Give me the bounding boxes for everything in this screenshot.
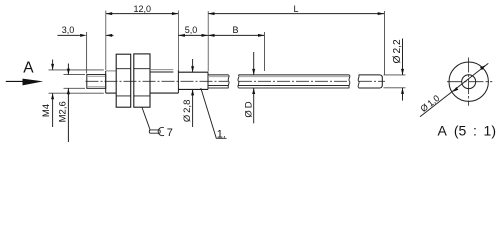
M2,6 threaded stub (87, 75, 106, 89)
shoulder face at thread end (177, 70, 179, 93)
sheath tube segment 1 (208, 74, 229, 76)
wrench symbol (149, 127, 164, 135)
dimension D1,0 diagonal line (420, 63, 488, 116)
svg-text:12,0: 12,0 (134, 4, 152, 14)
svg-text:B: B (232, 25, 238, 35)
diagonal arrowheads (480, 65, 486, 70)
svg-text:M4: M4 (41, 104, 52, 117)
extension line B right (264, 32, 266, 71)
tube break edge 2 (238, 75, 239, 88)
hex nut 1 (116, 54, 131, 107)
svg-text:Ø 1,0: Ø 1,0 (419, 93, 442, 114)
svg-text:3,0: 3,0 (62, 25, 75, 35)
dimension M2,6 extension lines (64, 74, 86, 76)
svg-text:7: 7 (167, 127, 173, 139)
cylinder D2,8 (178, 72, 208, 89)
svg-text:1.: 1. (217, 128, 226, 140)
tube start face (207, 72, 209, 89)
dimension M2,6 line and arrows (67, 64, 69, 143)
detail inner circle (462, 75, 476, 89)
extension line 12,0 left (105, 11, 107, 71)
sheath tube tip segment with rounded cap (359, 75, 383, 88)
svg-text:M2,6: M2,6 (57, 101, 68, 122)
extension line L left / B left / 5,0 right (207, 11, 209, 72)
dimension D (tube) line and arrows (253, 52, 255, 123)
dimension M4 extension lines (49, 69, 104, 71)
svg-text:L: L (293, 4, 298, 14)
svg-text:A: A (23, 59, 34, 76)
tube break edge 3 (349, 75, 350, 88)
M4 thread exposed left section (106, 70, 117, 72)
svg-text:A (5 : 1): A (5 : 1) (438, 123, 497, 139)
detail outer circle (449, 62, 488, 101)
extension line L right (384, 11, 386, 75)
dimension D2,2 extension lines (384, 74, 406, 76)
centerline main axis (86, 80, 229, 82)
svg-text:Ø 2,8: Ø 2,8 (182, 100, 193, 123)
extension line 3,0 left (86, 32, 88, 74)
svg-text:Ø 2,2: Ø 2,2 (392, 39, 403, 63)
svg-text:Ø D: Ø D (244, 101, 255, 117)
extension line 12,0 right / 5,0 left (177, 11, 179, 70)
hex nut 2 (134, 54, 150, 107)
M4 thread exposed right section (150, 69, 173, 71)
svg-text:5,0: 5,0 (185, 25, 198, 35)
view direction arrow (6, 80, 24, 82)
leader item 1 (201, 88, 227, 138)
leader wrench size 7 (142, 107, 150, 130)
dimension D2,2 line and arrows (402, 39, 404, 101)
tube break edge 1 (228, 75, 229, 88)
dimension D2,8 line and arrows (192, 59, 194, 127)
sheath tube segment 2 (238, 74, 349, 76)
tube break edge 4 (358, 75, 359, 88)
detail view crosshair (447, 58, 492, 106)
dimension M4 line and arrows (52, 60, 54, 128)
